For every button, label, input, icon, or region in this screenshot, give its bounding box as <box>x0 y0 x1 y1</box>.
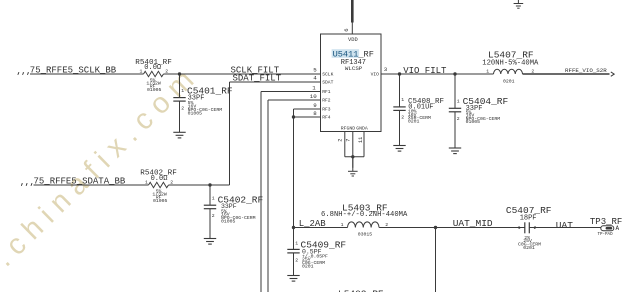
ground (C5402) <box>204 239 216 245</box>
net 75_RFFE5_SDATA_BB <box>20 177 149 188</box>
wire VDD stub to pin 6 <box>351 0 354 34</box>
svg-text:RF1: RF1 <box>322 89 331 95</box>
svg-text:RF3: RF3 <box>322 106 331 112</box>
svg-text:UAT_MID: UAT_MID <box>453 218 493 229</box>
svg-text:6.8NH-+/-0.2NH-440MA: 6.8NH-+/-0.2NH-440MA <box>321 211 408 219</box>
net RFFE_VIO_S2R <box>523 67 615 76</box>
svg-text:0201: 0201 <box>302 264 314 270</box>
test point TP3_RF <box>590 217 622 237</box>
ground (C5409) <box>287 276 299 282</box>
ground (C5404) <box>449 148 461 154</box>
svg-text:2: 2 <box>212 213 215 219</box>
svg-text:2: 2 <box>338 139 344 142</box>
wire RF4 <box>294 116 321 118</box>
capacitor C5408 <box>393 74 444 146</box>
svg-text:2: 2 <box>534 225 537 231</box>
svg-text:01005: 01005 <box>147 87 162 93</box>
wire SDATA to riser <box>169 183 230 186</box>
svg-text:7: 7 <box>346 139 352 142</box>
svg-text:A: A <box>616 225 620 232</box>
svg-text:,,,: ,,, <box>17 67 31 76</box>
svg-text:VIO: VIO <box>371 71 380 77</box>
wire SCLK_FILT <box>164 72 321 75</box>
svg-text:,,,: ,,, <box>20 178 34 187</box>
inductor L5407 <box>482 49 539 84</box>
svg-text:4: 4 <box>313 75 317 82</box>
IC ground pins 2,7,11 <box>338 132 365 168</box>
svg-text:1: 1 <box>401 97 404 103</box>
svg-text:0201: 0201 <box>503 78 515 84</box>
net VIO / wire pin 3 <box>381 72 494 75</box>
svg-text:01005: 01005 <box>153 198 168 204</box>
ground (top right, cut off) <box>514 0 524 8</box>
svg-text:L5402_RF: L5402_RF <box>338 289 384 292</box>
svg-text:RFFE_VIO_S2R: RFFE_VIO_S2R <box>565 67 607 74</box>
ground (C5408) <box>393 146 405 152</box>
svg-text:120NH-5%-40MA: 120NH-5%-40MA <box>482 59 539 67</box>
svg-text:3: 3 <box>384 66 388 73</box>
svg-text:2: 2 <box>181 105 184 111</box>
svg-text:5: 5 <box>313 67 317 74</box>
capacitor C5402 <box>204 185 264 239</box>
svg-text:1: 1 <box>341 222 344 228</box>
node UAT <box>529 220 601 231</box>
svg-text:0201: 0201 <box>523 245 535 251</box>
svg-text:0.0Ω: 0.0Ω <box>144 64 161 72</box>
svg-text:VDD: VDD <box>348 37 358 43</box>
wire RF1 <box>261 92 321 292</box>
inductor L5403 <box>321 202 408 237</box>
net SDAT_FILT <box>230 74 321 84</box>
capacitor C5409 <box>287 228 346 276</box>
svg-text:VIO_FILT: VIO_FILT <box>403 66 447 76</box>
svg-text:0201: 0201 <box>408 119 420 125</box>
svg-text:2: 2 <box>295 257 298 263</box>
capacitor C5401 <box>173 74 233 132</box>
svg-text:RF4: RF4 <box>322 114 331 120</box>
svg-text:8: 8 <box>313 110 317 117</box>
wire UAT_MID <box>379 226 525 229</box>
svg-text:1: 1 <box>518 225 521 231</box>
capacitor C5404 <box>449 74 509 148</box>
svg-text:SDAT: SDAT <box>322 79 333 85</box>
svg-text:UAT: UAT <box>556 220 573 231</box>
wire RF2 <box>268 100 321 292</box>
ground (IC pins) <box>348 157 358 176</box>
svg-text:1: 1 <box>181 88 184 94</box>
svg-text:11: 11 <box>358 137 364 143</box>
wire RF3 <box>292 109 321 228</box>
svg-text:2: 2 <box>457 116 460 122</box>
svg-text:1: 1 <box>312 84 316 91</box>
svg-text:WLCSP: WLCSP <box>345 65 363 72</box>
svg-text:GNDA: GNDA <box>356 126 368 132</box>
svg-text:01005: 01005 <box>466 119 481 125</box>
svg-text:18PF: 18PF <box>520 215 537 223</box>
wire down to L5402 <box>435 228 437 292</box>
svg-text:1: 1 <box>212 195 215 201</box>
svg-text:10: 10 <box>310 93 317 100</box>
resistor R5402 <box>140 170 177 204</box>
net 75_RFFE5_SCLK_BB <box>17 66 144 77</box>
svg-text:03015: 03015 <box>358 231 373 237</box>
svg-text:01005: 01005 <box>188 110 203 116</box>
svg-text:6: 6 <box>343 28 350 31</box>
capacitor C5407 <box>506 205 552 251</box>
svg-text:TP-PAD: TP-PAD <box>598 233 614 237</box>
svg-text:1: 1 <box>486 69 489 75</box>
svg-text:0.0Ω: 0.0Ω <box>151 175 168 183</box>
resistor R5401 <box>135 59 172 93</box>
ground (C5401) <box>173 132 185 138</box>
node L_2AB <box>292 219 348 229</box>
svg-text:RF2: RF2 <box>322 97 331 103</box>
svg-text:1: 1 <box>140 68 143 74</box>
svg-text:SCLK: SCLK <box>322 71 333 77</box>
svg-text:01005: 01005 <box>221 219 236 225</box>
svg-text:1: 1 <box>145 179 148 185</box>
svg-text:1: 1 <box>457 99 460 105</box>
svg-text:2: 2 <box>401 115 404 121</box>
wire riser SDAT <box>229 82 231 185</box>
svg-text:1: 1 <box>295 240 298 246</box>
IC U5411 <box>310 34 388 132</box>
svg-text:9: 9 <box>313 102 317 109</box>
svg-text:RFGND: RFGND <box>341 126 356 132</box>
